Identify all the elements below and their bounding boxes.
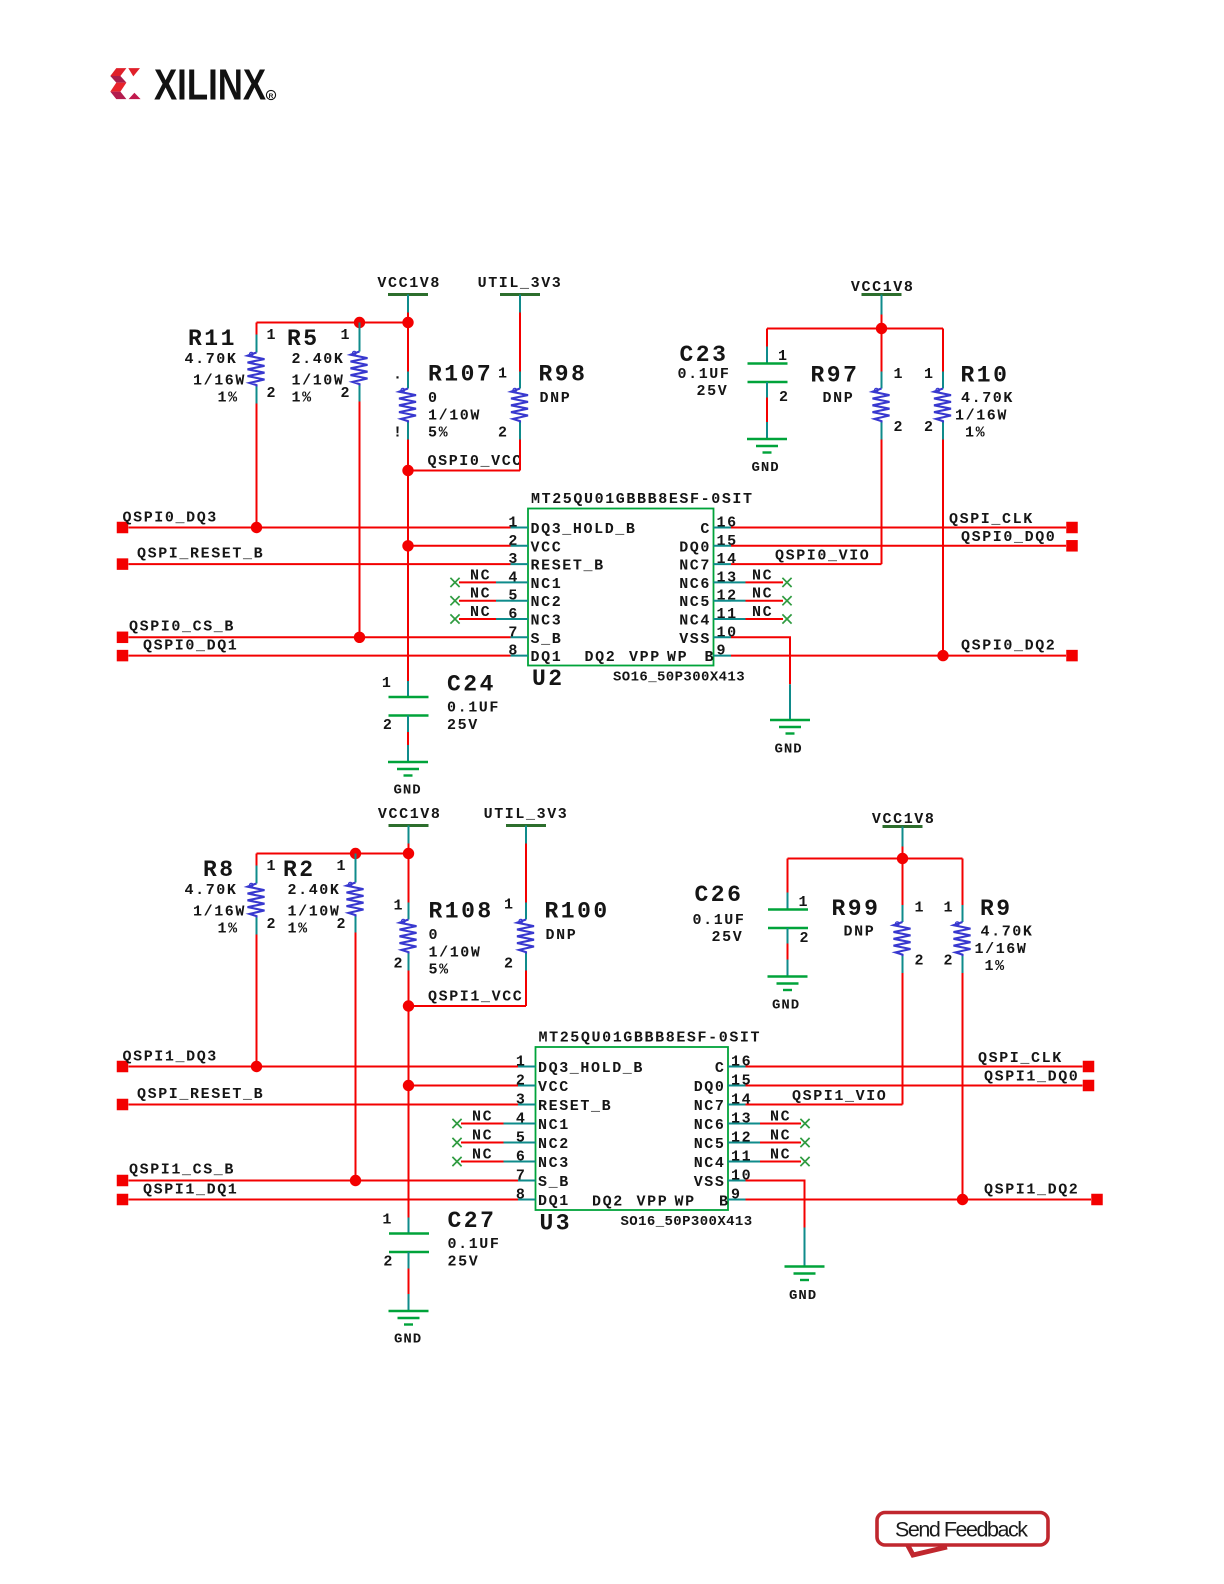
- svg-text:NC: NC: [752, 567, 773, 584]
- wire UTIL column upper (block 1): [525, 844, 527, 903]
- wire R99 top: [902, 859, 904, 906]
- svg-text:R108: R108: [429, 899, 494, 925]
- svg-text:R98: R98: [539, 362, 588, 388]
- svg-text:QSPI_RESET_B: QSPI_RESET_B: [137, 1086, 264, 1103]
- wire VCC pin 2 from QSPI1_VCC column: [408, 1006, 410, 1086]
- svg-text:1: 1: [799, 894, 810, 911]
- svg-text:Send Feedback: Send Feedback: [895, 1518, 1028, 1542]
- svg-text:C26: C26: [695, 882, 744, 908]
- svg-text:VPP: VPP: [637, 1194, 669, 1211]
- wire R8 top: [256, 854, 258, 866]
- wire VCC1V8 rail (block 0): [257, 322, 409, 324]
- resistor R107: [393, 362, 493, 442]
- svg-text:QSPI1_CS_B: QSPI1_CS_B: [129, 1162, 235, 1179]
- flash memory U2 MT25QU01GBBB8ESF-0SIT: [508, 491, 753, 692]
- wire QSPI0_DQ1 to pin 8: [129, 655, 511, 657]
- svg-text:4.70K: 4.70K: [185, 351, 238, 368]
- port QSPI1_DQ1: [117, 1182, 239, 1206]
- svg-text:RESET_B: RESET_B: [538, 1098, 612, 1115]
- resistor R108: [394, 898, 494, 979]
- svg-text:3: 3: [508, 551, 519, 568]
- svg-text:NC5: NC5: [679, 594, 711, 611]
- resistor R100: [504, 897, 610, 973]
- svg-text:QSPI_RESET_B: QSPI_RESET_B: [137, 546, 264, 563]
- svg-text:GND: GND: [394, 1332, 422, 1348]
- svg-text:QSPI1_DQ0: QSPI1_DQ0: [984, 1069, 1079, 1086]
- svg-text:NC2: NC2: [531, 594, 563, 611]
- svg-text:1: 1: [915, 900, 926, 917]
- svg-text:QSPI0_DQ2: QSPI0_DQ2: [961, 638, 1056, 655]
- wire QSPI_CLK pin 16: [746, 1066, 1083, 1068]
- wire R97 top: [881, 329, 883, 372]
- no-connect pin 5 (left, block 1): [452, 1128, 518, 1148]
- node right rail junction: [897, 853, 908, 864]
- svg-text:WP: WP: [667, 649, 688, 666]
- svg-text:C23: C23: [680, 342, 729, 368]
- svg-text:MT25QU01GBBB8ESF-0SIT: MT25QU01GBBB8ESF-0SIT: [539, 1030, 762, 1047]
- svg-text:GND: GND: [752, 460, 780, 476]
- node rail-VCC junction: [403, 848, 414, 859]
- node QSPI0_DQ3 junction: [251, 522, 262, 533]
- wire R107 bottom to QSPI0_VCC: [407, 440, 409, 471]
- svg-text:1: 1: [894, 366, 905, 383]
- no-connect pin 13 (right, block 0): [731, 567, 792, 587]
- svg-text:12: 12: [731, 1130, 752, 1147]
- wire VSS pin 10 to ground: [746, 1181, 805, 1228]
- node rail-VCC junction: [402, 317, 413, 328]
- wire R99 bottom to QSPI1_VIO: [902, 973, 904, 1105]
- no-connect pin 6 (left, block 1): [452, 1147, 518, 1167]
- svg-text:16: 16: [731, 1054, 752, 1071]
- port QSPI0_DQ3: [117, 510, 218, 534]
- wire QSPI1_DQ3 to pin 1: [129, 1066, 519, 1068]
- svg-text:2: 2: [383, 1254, 394, 1271]
- wire C27 to ground: [408, 1252, 410, 1269]
- svg-text:DQ2: DQ2: [592, 1194, 624, 1211]
- svg-text:NC7: NC7: [679, 558, 711, 575]
- svg-text:QSPI0_CS_B: QSPI0_CS_B: [129, 618, 235, 635]
- svg-text:SO16_50P300X413: SO16_50P300X413: [613, 670, 745, 686]
- wire R2 bottom to QSPI1_CS_B: [355, 933, 357, 1181]
- port QSPI0_DQ1: [117, 638, 239, 662]
- resistor R97: [811, 363, 905, 440]
- svg-text:1/10W: 1/10W: [288, 904, 341, 921]
- svg-text:WP: WP: [675, 1194, 696, 1211]
- svg-text:0: 0: [429, 927, 440, 944]
- svg-text:8: 8: [516, 1187, 527, 1204]
- wire C26 to ground: [787, 928, 789, 944]
- svg-text:1%: 1%: [292, 390, 313, 407]
- svg-text:C27: C27: [448, 1208, 497, 1234]
- svg-text:U3: U3: [540, 1211, 573, 1237]
- svg-text:R: R: [269, 93, 274, 100]
- svg-text:DNP: DNP: [823, 390, 855, 407]
- svg-text:11: 11: [731, 1149, 752, 1166]
- port QSPI1_CS_B: [117, 1162, 235, 1187]
- svg-text:2: 2: [341, 385, 352, 402]
- resistor R5: [287, 323, 368, 407]
- svg-text:DNP: DNP: [546, 927, 578, 944]
- svg-text:1: 1: [394, 898, 405, 915]
- svg-text:14: 14: [717, 551, 738, 568]
- wire VCC1V8 right rail (block 0): [767, 328, 943, 330]
- svg-text:UTIL_3V3: UTIL_3V3: [478, 275, 563, 292]
- svg-text:10: 10: [717, 624, 738, 641]
- svg-text:R97: R97: [811, 363, 860, 389]
- svg-text:DQ3_HOLD_B: DQ3_HOLD_B: [531, 521, 637, 538]
- svg-text:C: C: [715, 1060, 726, 1077]
- svg-text:NC4: NC4: [694, 1155, 726, 1172]
- wire net QSPI1_VCC: [409, 989, 527, 1007]
- wire VCC column upper (block 1): [408, 854, 410, 903]
- wire net QSPI0_VCC: [408, 453, 523, 471]
- svg-text:DQ1: DQ1: [538, 1193, 570, 1210]
- svg-text:R2: R2: [283, 857, 316, 883]
- svg-text:VPP: VPP: [629, 649, 661, 666]
- svg-text:7: 7: [516, 1168, 527, 1185]
- svg-text:1/10W: 1/10W: [429, 945, 482, 962]
- wire VCC column upper (block 0): [407, 323, 409, 372]
- svg-text:2.40K: 2.40K: [292, 351, 345, 368]
- svg-text:NC5: NC5: [694, 1136, 726, 1153]
- svg-text:1: 1: [944, 900, 955, 917]
- svg-text:0.1UF: 0.1UF: [693, 912, 746, 929]
- svg-text:5%: 5%: [429, 962, 450, 979]
- no-connect pin 12 (right, block 1): [746, 1128, 810, 1148]
- wire QSPI1_DQ1 to pin 8: [129, 1199, 519, 1201]
- svg-text:16: 16: [717, 515, 738, 532]
- svg-text:1: 1: [267, 327, 278, 344]
- svg-text:1: 1: [778, 348, 789, 365]
- wire R9 top: [962, 859, 964, 906]
- svg-text:S_B: S_B: [531, 631, 563, 648]
- power flag UTIL_3V3 (block 1): [484, 806, 569, 844]
- svg-text:NC: NC: [770, 1147, 791, 1164]
- svg-text:DQ0: DQ0: [694, 1079, 726, 1096]
- svg-text:2: 2: [779, 389, 790, 406]
- wire QSPI0_DQ3 to pin 1: [129, 527, 511, 529]
- svg-text:1: 1: [508, 515, 519, 532]
- svg-text:NC3: NC3: [531, 613, 563, 630]
- svg-text:NC: NC: [752, 604, 773, 621]
- svg-text:GND: GND: [789, 1288, 817, 1304]
- port QSPI1_DQ0: [984, 1069, 1094, 1092]
- svg-text:5%: 5%: [428, 425, 449, 442]
- capacitor C23: [678, 342, 790, 406]
- svg-text:9: 9: [731, 1187, 742, 1204]
- port QSPI_CLK (block 1): [978, 1050, 1094, 1072]
- svg-text:4.70K: 4.70K: [961, 390, 1014, 407]
- svg-text:NC: NC: [752, 586, 773, 603]
- svg-text:7: 7: [508, 624, 519, 641]
- wire VCC column to C27: [408, 1086, 410, 1218]
- svg-text:QSPI_CLK: QSPI_CLK: [978, 1050, 1063, 1067]
- svg-text:NC6: NC6: [694, 1117, 726, 1134]
- svg-text:QSPI0_DQ0: QSPI0_DQ0: [961, 529, 1056, 546]
- ground below C24: [388, 762, 428, 799]
- wire C23 to ground: [766, 382, 768, 398]
- wire QSPI_RESET_B to pin 3: [129, 1104, 519, 1106]
- port QSPI_CLK (block 0): [949, 511, 1078, 533]
- node VCC pin2 junction: [403, 1080, 414, 1091]
- node rail-R2 junction: [350, 848, 361, 859]
- svg-text:14: 14: [731, 1092, 752, 1109]
- svg-text:GND: GND: [775, 742, 803, 758]
- ground at VSS (block 0): [770, 720, 810, 758]
- resistor R99: [832, 896, 926, 973]
- svg-text:2: 2: [394, 956, 405, 973]
- svg-text:QSPI1_DQ2: QSPI1_DQ2: [984, 1182, 1079, 1199]
- svg-text:VCC: VCC: [531, 539, 563, 556]
- svg-text:1: 1: [267, 858, 278, 875]
- svg-text:9: 9: [717, 643, 728, 660]
- svg-text:8: 8: [508, 643, 519, 660]
- svg-text:NC1: NC1: [531, 576, 563, 593]
- svg-text:DQ0: DQ0: [679, 539, 711, 556]
- svg-text:1%: 1%: [985, 958, 1006, 975]
- wire R10 top: [942, 329, 944, 372]
- svg-text:NC: NC: [770, 1128, 791, 1145]
- no-connect pin 11 (right, block 0): [731, 604, 792, 624]
- svg-text:1: 1: [382, 675, 393, 692]
- svg-text:2: 2: [944, 953, 955, 970]
- node right rail junction: [876, 323, 887, 334]
- svg-text:0.1UF: 0.1UF: [678, 366, 731, 383]
- no-connect pin 6 (left, block 0): [450, 604, 510, 624]
- svg-text:DNP: DNP: [844, 924, 876, 941]
- Xilinx logo: [110, 61, 275, 110]
- wire VSS pin 10 to ground: [731, 637, 790, 684]
- svg-text:!: !: [393, 425, 404, 442]
- svg-text:25V: 25V: [712, 929, 744, 946]
- capacitor C24: [382, 672, 500, 735]
- svg-text:11: 11: [717, 606, 738, 623]
- svg-text:1%: 1%: [288, 921, 309, 938]
- svg-text:NC4: NC4: [679, 613, 711, 630]
- svg-text:1: 1: [498, 366, 509, 383]
- no-connect pin 5 (left, block 0): [450, 586, 510, 606]
- wire VCC1V8 rail (block 1): [257, 853, 409, 855]
- svg-text:R10: R10: [961, 363, 1010, 389]
- ground below C23: [747, 439, 787, 476]
- svg-text:B: B: [705, 649, 716, 666]
- node QSPI1_CS_B junction: [350, 1175, 361, 1186]
- svg-text:C: C: [700, 521, 711, 538]
- power flag VCC1V8 (right, block 1): [872, 811, 936, 859]
- capacitor C26: [693, 882, 811, 947]
- svg-text:QSPI0_DQ3: QSPI0_DQ3: [123, 510, 218, 527]
- svg-text:1/16W: 1/16W: [955, 408, 1008, 425]
- no-connect pin 13 (right, block 1): [746, 1109, 810, 1129]
- port QSPI_RESET_B: [117, 546, 264, 570]
- wire VCC1V8 right rail (block 1): [788, 858, 963, 860]
- svg-text:13: 13: [717, 569, 738, 586]
- wire QSPI1_DQ0 pin 15: [746, 1085, 1083, 1087]
- wire QSPI0_DQ0 pin 15: [731, 545, 1066, 547]
- svg-text:MT25QU01GBBB8ESF-0SIT: MT25QU01GBBB8ESF-0SIT: [531, 491, 754, 508]
- power flag VCC1V8 (left, block 1): [378, 806, 442, 854]
- resistor R9: [944, 896, 1034, 975]
- svg-text:R8: R8: [203, 857, 236, 883]
- svg-text:VCC1V8: VCC1V8: [378, 806, 442, 823]
- node QSPI0_VCC junction: [402, 465, 413, 476]
- svg-text:2: 2: [915, 953, 926, 970]
- svg-text:.: .: [393, 367, 404, 384]
- resistor R98: [498, 362, 587, 442]
- svg-text:1%: 1%: [965, 425, 986, 442]
- svg-text:QSPI_CLK: QSPI_CLK: [949, 511, 1034, 528]
- resistor R10: [924, 363, 1014, 442]
- ground at VSS (block 1): [785, 1267, 825, 1305]
- svg-text:GND: GND: [772, 998, 800, 1014]
- svg-text:2: 2: [516, 1073, 527, 1090]
- no-connect pin 12 (right, block 0): [731, 586, 792, 606]
- capacitor C27: [382, 1208, 500, 1271]
- svg-text:DNP: DNP: [540, 390, 572, 407]
- svg-text:4: 4: [508, 569, 519, 586]
- svg-text:0.1UF: 0.1UF: [448, 1236, 501, 1253]
- svg-text:1/10W: 1/10W: [428, 408, 481, 425]
- svg-text:NC7: NC7: [694, 1098, 726, 1115]
- svg-text:2.40K: 2.40K: [288, 882, 341, 899]
- svg-text:VCC1V8: VCC1V8: [377, 275, 441, 292]
- wire R11 top: [256, 323, 258, 335]
- wire VCC column to C24: [407, 546, 409, 681]
- svg-text:SO16_50P300X413: SO16_50P300X413: [621, 1214, 753, 1230]
- svg-text:UTIL_3V3: UTIL_3V3: [484, 806, 569, 823]
- svg-text:R107: R107: [428, 362, 493, 388]
- wire R5 bottom to QSPI0_CS_B: [359, 402, 361, 638]
- resistor R11: [185, 326, 278, 407]
- svg-text:QSPI1_VCC: QSPI1_VCC: [428, 989, 523, 1006]
- svg-text:1%: 1%: [218, 921, 239, 938]
- svg-text:S_B: S_B: [538, 1174, 570, 1191]
- wire R10 bottom to QSPI0_DQ2: [942, 440, 944, 656]
- svg-text:1/16W: 1/16W: [193, 904, 246, 921]
- svg-text:0: 0: [428, 390, 439, 407]
- port QSPI1_DQ2: [984, 1182, 1103, 1206]
- svg-text:1/16W: 1/16W: [975, 941, 1028, 958]
- svg-text:QSPI1_DQ1: QSPI1_DQ1: [143, 1182, 238, 1199]
- no-connect pin 4 (left, block 1): [452, 1109, 518, 1129]
- svg-text:QSPI1_VIO: QSPI1_VIO: [792, 1088, 887, 1105]
- no-connect pin 4 (left, block 0): [450, 567, 510, 587]
- svg-text:DQ2: DQ2: [585, 649, 617, 666]
- svg-text:NC: NC: [770, 1109, 791, 1126]
- wire QSPI_CLK pin 16: [731, 527, 1066, 529]
- port QSPI0_DQ0: [961, 529, 1078, 552]
- svg-text:13: 13: [731, 1111, 752, 1128]
- wire R98 bottom: [519, 440, 521, 471]
- svg-text:4: 4: [516, 1111, 527, 1128]
- svg-text:6: 6: [508, 606, 519, 623]
- svg-text:R11: R11: [188, 326, 237, 352]
- resistor R2: [283, 854, 364, 938]
- svg-text:1: 1: [504, 897, 515, 914]
- svg-text:VCC: VCC: [538, 1079, 570, 1096]
- svg-text:B: B: [719, 1194, 730, 1211]
- svg-text:VSS: VSS: [694, 1174, 726, 1191]
- node rail-R5 junction: [354, 317, 365, 328]
- node QSPI1_DQ3 junction: [251, 1061, 262, 1072]
- node QSPI0_CS_B junction: [354, 632, 365, 643]
- svg-text:15: 15: [717, 533, 738, 550]
- svg-text:1/10W: 1/10W: [292, 373, 345, 390]
- svg-text:GND: GND: [394, 783, 422, 799]
- svg-text:RESET_B: RESET_B: [531, 558, 605, 575]
- svg-text:10: 10: [731, 1168, 752, 1185]
- svg-text:NC6: NC6: [679, 576, 711, 593]
- svg-text:25V: 25V: [447, 717, 479, 734]
- svg-text:DQ3_HOLD_B: DQ3_HOLD_B: [538, 1060, 644, 1077]
- svg-text:R5: R5: [287, 326, 320, 352]
- svg-text:0.1UF: 0.1UF: [447, 700, 500, 717]
- svg-text:NC1: NC1: [538, 1117, 570, 1134]
- svg-text:1: 1: [337, 858, 348, 875]
- wire C23 top: [766, 329, 768, 347]
- port QSPI1_DQ3: [117, 1049, 218, 1073]
- wire C24 to ground: [407, 716, 409, 733]
- svg-text:2: 2: [800, 930, 811, 947]
- svg-text:5: 5: [516, 1130, 527, 1147]
- wire QSPI0_VIO pin 14: [731, 548, 882, 565]
- svg-text:12: 12: [717, 588, 738, 605]
- svg-text:XILINX: XILINX: [154, 61, 266, 110]
- wire QSPI0_DQ2 pin 9: [731, 655, 1066, 657]
- svg-text:1: 1: [924, 366, 935, 383]
- wire UTIL column upper (block 0): [519, 313, 521, 372]
- svg-text:1: 1: [382, 1212, 393, 1229]
- ground below C27: [389, 1311, 429, 1348]
- wire R108 bottom to QSPI1_VCC: [408, 971, 410, 1007]
- svg-text:2: 2: [267, 385, 278, 402]
- resistor R8: [185, 857, 278, 938]
- svg-text:6: 6: [516, 1149, 527, 1166]
- svg-text:2: 2: [508, 533, 519, 550]
- node QSPI1_VCC junction: [403, 1000, 414, 1011]
- node QSPI1_DQ2 junction: [957, 1194, 968, 1205]
- svg-text:25V: 25V: [697, 383, 729, 400]
- node QSPI0_DQ2 junction: [937, 650, 948, 661]
- ground below C26: [768, 977, 808, 1014]
- port QSPI0_DQ2: [961, 638, 1078, 662]
- svg-text:4.70K: 4.70K: [981, 924, 1034, 941]
- wire QSPI1_DQ2 pin 9: [746, 1199, 1092, 1201]
- svg-text:VSS: VSS: [679, 631, 711, 648]
- svg-text:2: 2: [337, 916, 348, 933]
- svg-text:QSPI1_DQ3: QSPI1_DQ3: [123, 1049, 218, 1066]
- wire R97 bottom to QSPI0_VIO: [881, 440, 883, 565]
- no-connect pin 11 (right, block 1): [746, 1147, 810, 1167]
- port QSPI_RESET_B: [117, 1086, 264, 1110]
- svg-text:15: 15: [731, 1073, 752, 1090]
- flash memory U3 MT25QU01GBBB8ESF-0SIT: [516, 1030, 761, 1237]
- wire QSPI1_CS_B to pin 7: [129, 1180, 519, 1182]
- power flag UTIL_3V3 (block 0): [478, 275, 563, 313]
- svg-text:1%: 1%: [218, 390, 239, 407]
- svg-text:QSPI0_DQ1: QSPI0_DQ1: [143, 638, 238, 655]
- wire QSPI_RESET_B to pin 3: [129, 563, 511, 565]
- svg-text:NC3: NC3: [538, 1155, 570, 1172]
- svg-text:QSPI0_VCC: QSPI0_VCC: [428, 453, 523, 470]
- Send Feedback button: [877, 1513, 1048, 1556]
- wire R9 bottom to QSPI1_DQ2: [962, 973, 964, 1200]
- svg-text:2: 2: [924, 419, 935, 436]
- svg-text:1: 1: [516, 1054, 527, 1071]
- wire R8 bottom to QSPI1_DQ3: [256, 935, 258, 1067]
- svg-text:1/16W: 1/16W: [193, 373, 246, 390]
- svg-text:2: 2: [383, 717, 394, 734]
